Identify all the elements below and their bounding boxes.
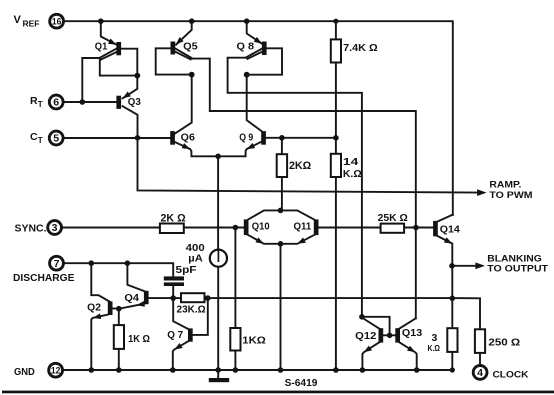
svg-text:Q6: Q6 <box>181 133 196 144</box>
svg-text:C: C <box>30 131 38 143</box>
svg-text:5pF: 5pF <box>176 264 198 276</box>
svg-text:REF: REF <box>23 19 40 29</box>
svg-text:4: 4 <box>477 367 483 379</box>
svg-text:3: 3 <box>52 222 58 234</box>
svg-text:14: 14 <box>343 156 359 168</box>
svg-text:Q2: Q2 <box>87 302 101 313</box>
svg-text:Q1: Q1 <box>95 41 108 52</box>
svg-text:12: 12 <box>51 366 61 376</box>
svg-text:23K.Ω: 23K.Ω <box>177 304 206 315</box>
svg-text:6: 6 <box>53 97 59 109</box>
svg-text:1KΩ: 1KΩ <box>242 336 265 347</box>
svg-text:Q4: Q4 <box>124 293 139 304</box>
svg-text:Q 8: Q 8 <box>237 42 255 53</box>
svg-text:CLOCK: CLOCK <box>493 369 529 380</box>
svg-text:TO PWM: TO PWM <box>489 190 532 201</box>
svg-text:250 Ω: 250 Ω <box>488 338 520 349</box>
svg-text:7.4K Ω: 7.4K Ω <box>343 42 378 54</box>
svg-text:K.Ω: K.Ω <box>343 168 362 180</box>
svg-text:GND: GND <box>14 366 35 378</box>
svg-text:7: 7 <box>54 258 60 270</box>
svg-text:5: 5 <box>53 133 59 145</box>
svg-text:Q 9: Q 9 <box>239 133 253 144</box>
svg-text:BLANKING: BLANKING <box>487 253 542 263</box>
svg-text:2K Ω: 2K Ω <box>161 213 186 225</box>
svg-text:DISCHARGE: DISCHARGE <box>13 272 75 284</box>
svg-text:Q5: Q5 <box>183 42 198 53</box>
svg-text:S-6419: S-6419 <box>285 378 318 389</box>
svg-text:1K Ω: 1K Ω <box>128 334 150 345</box>
svg-text:µA: µA <box>188 253 203 265</box>
svg-text:T: T <box>38 100 43 109</box>
svg-text:Q10: Q10 <box>252 222 270 233</box>
svg-text:TO OUTPUT: TO OUTPUT <box>487 264 548 274</box>
svg-text:K.Ω: K.Ω <box>428 343 441 353</box>
svg-text:T: T <box>38 136 43 145</box>
svg-text:Q14: Q14 <box>440 225 460 236</box>
svg-text:R: R <box>30 95 38 107</box>
svg-text:Q11: Q11 <box>294 222 312 233</box>
svg-text:SYNC.: SYNC. <box>15 223 47 234</box>
svg-text:25K Ω: 25K Ω <box>378 213 408 224</box>
svg-text:Q13: Q13 <box>402 328 423 339</box>
svg-text:Q12: Q12 <box>355 331 377 342</box>
svg-text:V: V <box>14 14 22 26</box>
svg-text:16: 16 <box>52 17 62 27</box>
svg-text:Q 7: Q 7 <box>167 330 183 341</box>
svg-text:Q3: Q3 <box>128 97 141 108</box>
svg-text:2KΩ: 2KΩ <box>289 160 311 172</box>
